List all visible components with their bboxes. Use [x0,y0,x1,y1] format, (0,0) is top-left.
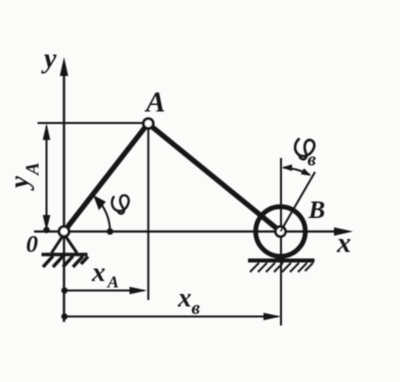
dimension xA line with dot and arrow [61,287,147,294]
pivot O joint circle [59,227,69,237]
ground hatching at O [42,255,89,268]
vertical reference line through B [280,158,282,326]
dimension xB line with dot and arrow [61,313,281,320]
crank link OA [64,124,148,232]
svg-text:A: A [144,87,165,119]
svg-text:B: B [308,197,326,224]
angle phi arc with dot and arrow [93,195,113,235]
svg-text:y: y [41,44,57,75]
radius mark line at B [281,172,316,232]
horizontal projection line at A level [38,122,149,124]
y axis [41,44,68,323]
ground line under wheel B [248,259,315,263]
dimension yA line with arrows and dot [43,124,51,234]
connecting rod AB [148,124,281,232]
svg-text:в: в [192,298,201,319]
svg-text:x: x [177,283,192,313]
svg-text:A: A [107,273,119,292]
svg-text:0: 0 [26,232,38,258]
label phi [112,195,129,213]
svg-text:y: y [4,175,34,191]
support triangle at O [52,234,78,253]
label xB [177,283,201,320]
wheel hub at B [276,227,286,237]
svg-text:x: x [91,257,106,287]
wheel at B outer rim [256,207,306,257]
vertical line below A [147,124,149,301]
svg-text:в: в [308,150,317,171]
ground hatching under B [250,263,313,272]
joint A circle [143,119,153,129]
svg-text:A: A [23,162,44,176]
angle phiB arc with two arrows [282,164,311,176]
x axis [34,227,353,259]
svg-text:x: x [336,228,351,259]
label yA (rotated) [4,162,44,191]
label phiB [292,137,315,161]
label xA [91,257,119,292]
